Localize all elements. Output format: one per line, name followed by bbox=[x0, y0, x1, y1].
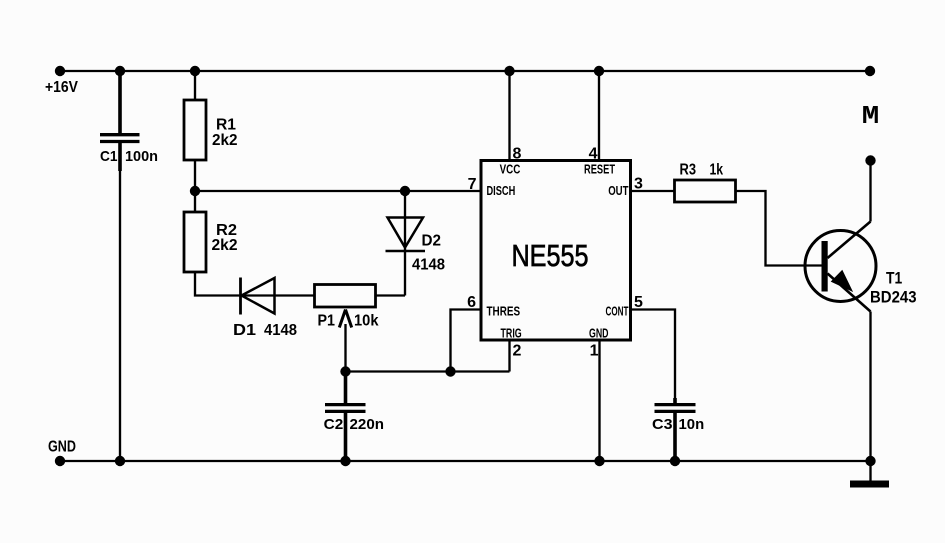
svg-text:100n: 100n bbox=[125, 148, 158, 165]
svg-text:6: 6 bbox=[467, 294, 476, 311]
svg-text:2: 2 bbox=[513, 343, 522, 360]
wire: +16V top supply rail bbox=[60, 70, 870, 72]
wire: pin 8 VCC lead bbox=[508, 71, 510, 161]
wire: pin 3 OUT lead to R3 bbox=[631, 190, 675, 192]
wire: pin 2 TRIG lead bbox=[508, 340, 510, 372]
svg-text:4148: 4148 bbox=[412, 257, 445, 274]
node: junction pin1 / ground rail bbox=[594, 456, 604, 466]
capacitor C3 bbox=[655, 405, 696, 412]
svg-text:M: M bbox=[862, 101, 880, 131]
svg-text:DISCH: DISCH bbox=[487, 184, 516, 198]
svg-text:GND: GND bbox=[48, 439, 76, 456]
ground symbol bbox=[850, 461, 889, 488]
svg-text:D2: D2 bbox=[422, 233, 442, 250]
svg-text:NE555: NE555 bbox=[512, 238, 589, 273]
node: junction R1/R2/pin7 bbox=[190, 186, 200, 196]
node: junction C2 / wiper bbox=[340, 366, 350, 376]
wire: D2 lead from pin7 net down to P1 branch bbox=[404, 191, 406, 296]
svg-text:7: 7 bbox=[468, 176, 477, 193]
node: junction D2 top on pin7 net bbox=[400, 186, 410, 196]
wire: C1 top lead bbox=[118, 71, 122, 133]
label T1 BD243 bbox=[870, 269, 917, 307]
wire: R2 bottom lead to D1 bbox=[195, 272, 315, 296]
svg-text:2k2: 2k2 bbox=[212, 132, 238, 149]
svg-text:C1: C1 bbox=[100, 148, 118, 165]
svg-text:RESET: RESET bbox=[584, 163, 615, 177]
wire: pin 5 CONT lead to C3 bbox=[631, 310, 676, 399]
svg-text:5: 5 bbox=[634, 294, 643, 311]
label R1 2k2 bbox=[212, 117, 238, 150]
wire: pin 6 THRES lead bbox=[451, 310, 482, 372]
capacitor C2 bbox=[325, 405, 366, 412]
svg-text:D1: D1 bbox=[233, 322, 256, 339]
svg-text:4: 4 bbox=[589, 146, 598, 163]
label C2 220n bbox=[324, 416, 384, 433]
node: GND terminal bbox=[55, 456, 65, 466]
wire: collector to motor terminal bbox=[869, 161, 871, 222]
wire: net to DISCH pin 7 bbox=[195, 190, 481, 192]
svg-text:R1: R1 bbox=[216, 117, 236, 134]
node: junction C3 / ground rail bbox=[670, 456, 680, 466]
wire: R3 to transistor base bbox=[736, 191, 822, 266]
svg-text:CONT: CONT bbox=[606, 305, 629, 319]
wire: pin 4 RESET lead bbox=[598, 71, 600, 161]
svg-text:BD243: BD243 bbox=[870, 288, 917, 307]
op-amp/timer U1 NE555 body bbox=[481, 161, 631, 341]
svg-text:R3: R3 bbox=[680, 162, 697, 179]
svg-text:220n: 220n bbox=[350, 416, 385, 433]
svg-text:VCC: VCC bbox=[500, 163, 521, 177]
node: junction pin4 / top rail bbox=[594, 66, 604, 76]
svg-text:GND: GND bbox=[589, 327, 609, 341]
wire: trigger net P1 wiper / THRES / pin2 bbox=[346, 370, 510, 372]
svg-text:C3: C3 bbox=[652, 416, 673, 433]
svg-text:10n: 10n bbox=[679, 416, 705, 433]
wire: R2 top lead bbox=[194, 191, 196, 212]
resistor R3 bbox=[675, 180, 736, 202]
svg-text:OUT: OUT bbox=[608, 184, 629, 198]
svg-text:THRES: THRES bbox=[487, 305, 521, 319]
svg-text:8: 8 bbox=[513, 146, 522, 163]
svg-text:10k: 10k bbox=[354, 313, 379, 330]
svg-text:1k: 1k bbox=[710, 162, 724, 179]
wire: P1 wiper lead bbox=[344, 324, 346, 372]
wire: pin 1 GND lead to ground rail bbox=[598, 340, 600, 461]
wire: emitter down to ground rail bbox=[869, 312, 871, 462]
wire: P1 right lead to D2 branch bbox=[376, 294, 406, 296]
svg-text:T1: T1 bbox=[886, 269, 902, 288]
wire: C3 bottom lead bbox=[673, 413, 677, 461]
node: junction R1 / top rail bbox=[190, 66, 200, 76]
node: motor upper terminal on top rail bbox=[865, 66, 875, 76]
svg-text:4148: 4148 bbox=[264, 322, 297, 339]
svg-text:P1: P1 bbox=[318, 313, 336, 330]
wire: GND bottom rail bbox=[60, 460, 871, 462]
node: junction C1 / ground rail bbox=[115, 456, 125, 466]
diode D2 bbox=[386, 218, 426, 252]
node: junction C2 / ground rail bbox=[340, 456, 350, 466]
node: junction emitter / ground rail bbox=[865, 456, 875, 466]
svg-text:+16V: +16V bbox=[45, 79, 78, 96]
label C3 10n bbox=[652, 416, 704, 433]
potentiometer P1 bbox=[315, 285, 376, 328]
resistor R2 bbox=[184, 212, 206, 272]
svg-text:2k2: 2k2 bbox=[212, 237, 238, 254]
wire: R1 top lead bbox=[194, 71, 196, 100]
svg-text:1: 1 bbox=[590, 343, 599, 360]
label P1 10k bbox=[318, 313, 379, 330]
node: junction THRES drop bbox=[445, 366, 455, 376]
node: junction C1 / top rail bbox=[115, 66, 125, 76]
node: junction pin8 / top rail bbox=[504, 66, 514, 76]
wire: C2 top lead bbox=[344, 372, 348, 404]
capacitor C1 bbox=[100, 135, 140, 142]
label D2 4148 bbox=[412, 233, 445, 274]
node: +16V terminal bbox=[55, 66, 65, 76]
wire: C2 bottom lead bbox=[344, 413, 348, 461]
diode D1 bbox=[241, 278, 275, 315]
label R2 2k2 bbox=[212, 222, 238, 254]
label D1 4148 bbox=[233, 322, 297, 339]
label R3 1k bbox=[680, 162, 724, 179]
wire: R1 bottom lead bbox=[194, 160, 196, 191]
svg-text:TRIG: TRIG bbox=[501, 327, 522, 341]
svg-text:C2: C2 bbox=[324, 416, 344, 433]
label C1 100n bbox=[100, 148, 158, 165]
transistor T1 bbox=[805, 222, 876, 312]
resistor R1 bbox=[184, 100, 206, 160]
svg-text:3: 3 bbox=[634, 176, 643, 193]
wire: C1 bottom lead to ground rail bbox=[118, 143, 122, 171]
node: motor lower terminal bbox=[865, 155, 875, 165]
